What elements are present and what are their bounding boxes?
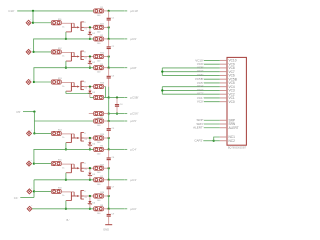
svg-text:C10ʹ: C10ʹ xyxy=(8,9,15,13)
svg-text:R16: R16 xyxy=(58,188,63,190)
svg-text:+: + xyxy=(31,205,33,207)
svg-text:NC2: NC2 xyxy=(229,139,236,143)
svg-text:µC10ʹ: µC10ʹ xyxy=(130,9,138,13)
svg-text:VC6ʹ: VC6ʹ xyxy=(197,73,204,77)
svg-text:100: 100 xyxy=(97,184,101,186)
svg-text:T4: T4 xyxy=(84,139,87,141)
svg-text:1k: 1k xyxy=(62,195,64,197)
svg-text:µC8ʹ: µC8ʹ xyxy=(130,66,137,70)
svg-text:µC5Xʹ: µC5Xʹ xyxy=(130,112,139,116)
svg-text:R14: R14 xyxy=(58,130,63,132)
svg-text:C5ʹ: C5ʹ xyxy=(16,110,21,114)
svg-text:+: + xyxy=(31,130,33,132)
svg-text:D: D xyxy=(84,81,86,83)
svg-text:100: 100 xyxy=(97,172,101,174)
svg-text:D1: D1 xyxy=(92,33,96,35)
svg-text:T2: T2 xyxy=(84,58,87,60)
svg-text:+: + xyxy=(31,160,33,162)
svg-text:1k: 1k xyxy=(62,27,64,29)
svg-text:T6: T6 xyxy=(84,197,87,199)
svg-text:C4: C4 xyxy=(120,104,124,106)
svg-text:T1: T1 xyxy=(84,28,87,30)
svg-text:D3: D3 xyxy=(92,92,96,94)
svg-text:R24: R24 xyxy=(100,134,105,136)
svg-text:µC3ʹ: µC3ʹ xyxy=(130,178,137,182)
svg-text:R11: R11 xyxy=(58,19,63,21)
svg-text:µC5Bʹ: µC5Bʹ xyxy=(130,96,139,100)
svg-text:BQ7693003DBT: BQ7693003DBT xyxy=(228,147,247,150)
svg-text:C2: C2 xyxy=(112,46,116,48)
svg-text:B-ʹ: B-ʹ xyxy=(67,218,71,222)
svg-text:VC0ʹ: VC0ʹ xyxy=(197,100,204,104)
svg-text:D5: D5 xyxy=(92,174,96,176)
svg-text:100: 100 xyxy=(97,72,101,74)
svg-text:C1: C1 xyxy=(112,18,116,20)
svg-text:VC0: VC0 xyxy=(229,100,235,104)
svg-text:R15: R15 xyxy=(58,160,63,162)
svg-text:µC5ʹ: µC5ʹ xyxy=(130,119,137,123)
svg-text:C7: C7 xyxy=(112,186,116,188)
svg-text:R23: R23 xyxy=(100,83,105,85)
svg-text:D: D xyxy=(84,22,86,24)
svg-text:100: 100 xyxy=(97,125,101,127)
svg-text:C3: C3 xyxy=(112,76,116,78)
svg-text:D6: D6 xyxy=(92,202,96,204)
svg-text:C5: C5 xyxy=(112,128,116,130)
svg-text:R13: R13 xyxy=(58,78,63,80)
svg-text:1k: 1k xyxy=(62,167,64,169)
svg-text:µC0ʹ: µC0ʹ xyxy=(130,207,137,211)
svg-text:D: D xyxy=(84,133,86,135)
svg-text:VC2ʹ: VC2ʹ xyxy=(197,92,204,96)
svg-text:1k: 1k xyxy=(62,137,64,139)
svg-text:D: D xyxy=(84,191,86,193)
svg-text:100: 100 xyxy=(97,61,101,63)
svg-text:100: 100 xyxy=(97,153,101,155)
svg-text:1k: 1k xyxy=(62,56,64,58)
svg-text:+: + xyxy=(30,78,32,80)
svg-text:CAP2ʹ: CAP2ʹ xyxy=(194,139,203,143)
svg-text:R25: R25 xyxy=(100,164,105,166)
svg-text:R26: R26 xyxy=(100,192,105,194)
svg-text:µC4ʹ: µC4ʹ xyxy=(130,148,137,152)
svg-text:D: D xyxy=(84,51,86,53)
svg-text:100: 100 xyxy=(97,142,101,144)
svg-text:GND: GND xyxy=(103,228,109,232)
svg-text:C6: C6 xyxy=(112,157,116,159)
svg-text:ALERTʹ: ALERTʹ xyxy=(193,126,204,130)
svg-text:100: 100 xyxy=(97,15,101,17)
svg-text:C1ʹ: C1ʹ xyxy=(14,196,19,200)
svg-text:100: 100 xyxy=(97,31,101,33)
svg-text:ALERT: ALERT xyxy=(229,126,239,130)
svg-text:µC9ʹ: µC9ʹ xyxy=(130,37,137,41)
svg-text:R22: R22 xyxy=(100,53,105,55)
svg-text:T3: T3 xyxy=(84,88,87,90)
svg-text:T5: T5 xyxy=(84,169,87,171)
svg-text:C9: C9 xyxy=(112,214,116,216)
svg-text:D: D xyxy=(84,163,86,165)
svg-text:+: + xyxy=(30,19,32,21)
svg-text:R21: R21 xyxy=(100,23,105,25)
svg-text:+: + xyxy=(31,188,33,190)
svg-text:+: + xyxy=(30,48,32,50)
svg-text:100: 100 xyxy=(97,43,101,45)
svg-text:R12: R12 xyxy=(58,48,63,50)
svg-text:D4: D4 xyxy=(92,144,96,146)
svg-text:100: 100 xyxy=(97,200,101,202)
svg-text:1k: 1k xyxy=(62,86,64,88)
svg-text:100: 100 xyxy=(97,213,101,215)
svg-text:D2: D2 xyxy=(92,62,96,64)
